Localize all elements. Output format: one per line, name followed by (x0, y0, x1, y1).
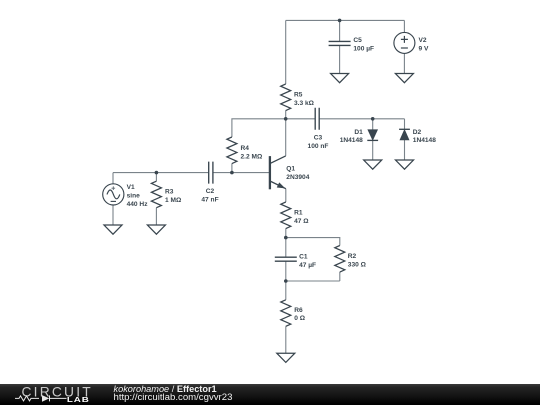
wire (286, 280, 340, 282)
svg-text:R3: R3 (165, 189, 174, 196)
label C1 (299, 253, 316, 268)
node R3-top (155, 171, 159, 175)
svg-text:R2: R2 (348, 253, 357, 260)
wire (403, 53, 405, 73)
wire (372, 119, 374, 130)
svg-text:V2: V2 (419, 37, 427, 44)
label R1 (294, 210, 309, 225)
svg-text:100 µF: 100 µF (353, 46, 374, 53)
resistor R1 (281, 202, 291, 229)
ground (396, 160, 414, 169)
svg-text:R4: R4 (241, 145, 250, 152)
wire (112, 173, 114, 184)
label R3 (165, 189, 182, 204)
label R5 (294, 92, 315, 107)
resistor R6 (281, 300, 291, 327)
wire (285, 261, 287, 281)
wire (112, 205, 114, 225)
wire (285, 119, 287, 156)
wire (285, 326, 287, 353)
svg-text:R5: R5 (294, 92, 303, 99)
label D2 (413, 129, 436, 144)
wire (339, 272, 341, 281)
wire (285, 189, 287, 202)
voltage source V2 (394, 32, 415, 53)
svg-text:47 Ω: 47 Ω (294, 218, 309, 225)
svg-text:C3: C3 (314, 135, 323, 142)
svg-text:Q1: Q1 (286, 166, 295, 173)
node R6-top (284, 279, 288, 283)
svg-text:C2: C2 (206, 188, 215, 195)
svg-text:D1: D1 (354, 129, 363, 136)
svg-text:1N4148: 1N4148 (340, 137, 363, 144)
wire (285, 111, 287, 119)
capacitor C3 (315, 108, 319, 130)
wire (404, 119, 406, 130)
resistor R3 (151, 181, 161, 208)
label Q1 (286, 166, 309, 181)
ground (364, 160, 382, 169)
label V1 (127, 184, 149, 208)
wire (403, 20, 405, 32)
svg-text:1N4148: 1N4148 (413, 137, 436, 144)
wire (319, 118, 404, 120)
node collector (284, 117, 288, 121)
ground (277, 353, 295, 362)
ground (104, 225, 122, 234)
wire (285, 20, 287, 84)
diode D2 (399, 129, 410, 140)
label C3 (308, 135, 329, 150)
svg-text:9 V: 9 V (419, 45, 429, 52)
svg-text:47 µF: 47 µF (299, 262, 316, 269)
svg-text:D2: D2 (413, 129, 422, 136)
wire (113, 172, 209, 174)
wire (286, 19, 405, 21)
capacitor C5 (329, 41, 351, 45)
resistor R2 (335, 246, 345, 273)
footer bar (0, 384, 540, 405)
ground (331, 74, 349, 83)
svg-text:100 nF: 100 nF (308, 143, 329, 150)
svg-text:3.3 kΩ: 3.3 kΩ (294, 100, 315, 107)
wire (286, 238, 340, 246)
svg-text:47 nF: 47 nF (201, 197, 218, 204)
label D1 (340, 129, 363, 144)
CircuitLab logo (0, 384, 100, 405)
wire (285, 238, 287, 258)
label R2 (348, 253, 367, 268)
ground (147, 225, 165, 234)
node C5-top (338, 19, 342, 23)
svg-text:2N3904: 2N3904 (286, 174, 309, 181)
svg-text:1 MΩ: 1 MΩ (165, 197, 182, 204)
diode D1 (367, 130, 378, 141)
label R4 (241, 145, 263, 160)
wire (339, 45, 341, 73)
svg-text:330 Ω: 330 Ω (348, 261, 367, 268)
svg-text:2.2 MΩ: 2.2 MΩ (241, 154, 263, 161)
svg-text:C5: C5 (353, 37, 362, 44)
capacitor C1 (275, 257, 297, 261)
svg-text:C1: C1 (299, 253, 308, 260)
label V2 (419, 37, 429, 52)
svg-text:V1: V1 (127, 184, 135, 191)
wire (372, 140, 374, 160)
capacitor C2 (209, 162, 213, 184)
ground (395, 74, 413, 83)
svg-text:sine: sine (127, 193, 141, 200)
wire (286, 118, 316, 120)
wire (231, 164, 233, 173)
wire (285, 281, 287, 300)
footer url (114, 393, 233, 402)
wire (155, 208, 157, 225)
node R1-bottom (284, 236, 288, 240)
wire (339, 20, 341, 41)
footer title (114, 385, 217, 394)
resistor R4 (227, 137, 237, 164)
node D1-top (371, 117, 375, 121)
svg-text:R6: R6 (294, 307, 303, 314)
transistor Q1 (270, 156, 286, 189)
wire (404, 140, 406, 160)
voltage source V1 (103, 184, 124, 205)
wire (232, 119, 286, 137)
wire (285, 229, 287, 238)
label C5 (353, 37, 374, 52)
label C2 (201, 188, 218, 203)
svg-text:0 Ω: 0 Ω (294, 315, 305, 322)
resistor R5 (281, 84, 291, 111)
svg-text:R1: R1 (294, 210, 303, 217)
svg-text:440 Hz: 440 Hz (127, 201, 149, 208)
wire (213, 172, 269, 174)
wire (155, 173, 157, 182)
node R4-bottom (230, 171, 234, 175)
svg-text:LAB: LAB (67, 395, 90, 404)
label R6 (294, 307, 305, 322)
